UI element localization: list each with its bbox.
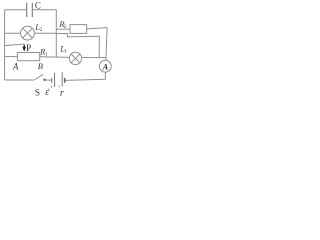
wire L2 branch right — [34, 32, 56, 34]
rheostat R1 — [17, 46, 48, 60]
wire right rail upper — [106, 28, 107, 61]
resistor R2 — [58, 19, 86, 33]
wire mid rail — [55, 10, 57, 58]
wire right rail lower — [104, 72, 106, 79]
wire slider P feed — [5, 44, 25, 48]
wire capacitor to mid rail — [32, 9, 56, 11]
slider arrow P — [22, 43, 31, 53]
stray mark 1 — [48, 88, 50, 90]
wire lamp L1 to right rail — [82, 57, 106, 59]
wire left rail — [4, 10, 6, 80]
stray mark 2 — [51, 85, 53, 88]
wire R2 branch right — [87, 28, 107, 29]
svg-text:P: P — [26, 43, 31, 53]
ammeter A — [99, 60, 111, 72]
wire top-left segment to capacitor — [5, 9, 27, 11]
svg-text:C: C — [35, 0, 41, 10]
wire battery to right rail — [66, 79, 106, 80]
lamp L1 — [59, 44, 82, 65]
svg-text:B: B — [38, 61, 43, 71]
wire left rail to rheostat — [5, 56, 18, 58]
wire bottom left — [5, 79, 34, 81]
svg-text:r: r — [60, 88, 64, 99]
svg-text:A: A — [102, 63, 109, 72]
wire rheostat to lamp L1 — [40, 56, 70, 59]
wire R2 branch left — [56, 28, 70, 30]
wire switch to battery — [46, 79, 52, 81]
wire jog from node to L1 output — [56, 34, 99, 58]
svg-text:S: S — [35, 88, 40, 98]
svg-text:A: A — [12, 62, 19, 72]
stray mark 3 — [58, 85, 60, 87]
wire L2 branch left — [5, 32, 21, 34]
switch S — [35, 74, 46, 98]
lamp L2 — [21, 22, 43, 40]
capacitor C — [27, 0, 41, 17]
battery cells — [45, 72, 64, 99]
